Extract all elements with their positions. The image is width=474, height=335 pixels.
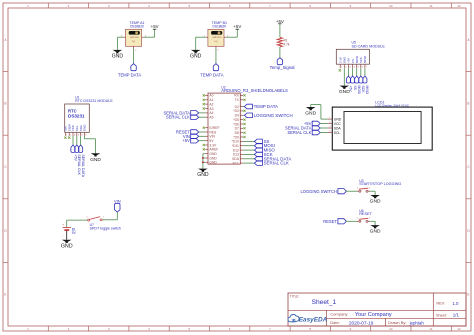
svg-text:SERIAL CLK: SERIAL CLK — [166, 115, 190, 120]
svg-text:11: 11 — [430, 4, 433, 8]
svg-text:*D5: *D5 — [233, 118, 239, 122]
svg-text:DS18B20: DS18B20 — [213, 24, 227, 28]
svg-text:D2: D2 — [235, 105, 239, 109]
svg-text:MOSI: MOSI — [357, 86, 361, 95]
svg-text:A5: A5 — [209, 116, 213, 120]
svg-text:VIN: VIN — [209, 135, 215, 139]
svg-text:4.7k: 4.7k — [284, 42, 290, 46]
svg-text:GND: GND — [83, 125, 87, 131]
svg-text:Your Company: Your Company — [355, 312, 392, 318]
svg-text:10: 10 — [389, 4, 393, 8]
svg-text:+5V: +5V — [233, 24, 241, 29]
svg-text:TEMP DATA: TEMP DATA — [200, 72, 223, 77]
svg-text:SERIAL DATA: SERIAL DATA — [81, 154, 85, 177]
svg-text:B: B — [467, 102, 469, 106]
svg-text:VIN: VIN — [114, 198, 121, 203]
svg-text:RX: RX — [234, 94, 239, 98]
svg-text:MISO: MISO — [365, 86, 369, 95]
svg-text:REV:: REV: — [436, 302, 445, 306]
svg-text:SCL: SCL — [232, 161, 239, 165]
svg-text:D13: D13 — [233, 153, 239, 157]
svg-text:12: 12 — [457, 327, 461, 331]
svg-text:RTC DS3231 MODULE: RTC DS3231 MODULE — [75, 99, 113, 103]
svg-text:12: 12 — [457, 4, 461, 8]
svg-text:SS: SS — [353, 86, 357, 91]
svg-text:AREF: AREF — [209, 148, 218, 152]
svg-text:DQ: DQ — [214, 41, 217, 43]
svg-text:GND: GND — [112, 54, 124, 60]
svg-text:MISO: MISO — [363, 55, 367, 63]
svg-text:+: + — [62, 223, 64, 227]
svg-text:DQ: DQ — [132, 41, 135, 43]
svg-text:*D9: *D9 — [233, 135, 239, 139]
svg-text:11: 11 — [430, 327, 433, 331]
svg-text:*D11: *D11 — [232, 144, 239, 148]
svg-text:VDD: VDD — [217, 37, 222, 39]
svg-text:GND: GND — [305, 111, 316, 117]
svg-text:jephtah: jephtah — [409, 321, 425, 326]
svg-text:+5V: +5V — [276, 19, 284, 24]
svg-text:GND: GND — [339, 89, 350, 95]
svg-text:SPDT toggle switch: SPDT toggle switch — [90, 227, 121, 231]
svg-text:SERIAL CLK: SERIAL CLK — [264, 161, 289, 166]
svg-text:GND: GND — [190, 54, 202, 60]
svg-text:Drawn By:: Drawn By: — [388, 320, 406, 325]
svg-text:GND: GND — [61, 243, 73, 249]
svg-text:START/STOP LOGGING: START/STOP LOGGING — [359, 182, 401, 186]
svg-text:TEMP DATA: TEMP DATA — [118, 72, 141, 77]
svg-text:2020-07-19: 2020-07-19 — [349, 320, 374, 326]
svg-text:DS3231: DS3231 — [68, 114, 85, 119]
svg-text:LCD Display, 20x4 V3 IIC: LCD Display, 20x4 V3 IIC — [375, 104, 410, 108]
svg-text:EasyEDA: EasyEDA — [299, 317, 328, 324]
svg-text:A3: A3 — [209, 107, 213, 111]
svg-text:GND: GND — [370, 199, 381, 205]
svg-text:SCK: SCK — [361, 86, 365, 94]
svg-text:GND: GND — [197, 172, 209, 178]
svg-text:E: E — [4, 292, 6, 296]
svg-text:10: 10 — [389, 327, 393, 331]
svg-text:SDA: SDA — [334, 126, 342, 130]
svg-text:RESET: RESET — [359, 212, 372, 216]
svg-text:TEMP DATA: TEMP DATA — [254, 104, 278, 109]
svg-text:-: - — [62, 233, 63, 237]
svg-text:SERIAL CLK: SERIAL CLK — [287, 130, 311, 135]
svg-text:Sheet_1: Sheet_1 — [312, 299, 337, 306]
svg-text:VDD: VDD — [135, 37, 140, 39]
svg-text:+5V: +5V — [151, 24, 159, 29]
svg-text:GND: GND — [90, 157, 101, 163]
svg-text:GND: GND — [209, 161, 217, 165]
svg-text:Date:: Date: — [330, 320, 340, 325]
svg-text:SCL: SCL — [334, 131, 341, 135]
svg-text:+5V: +5V — [349, 86, 353, 93]
svg-text:VCC: VCC — [334, 122, 342, 126]
svg-text:*D3: *D3 — [233, 109, 239, 113]
svg-text:DS18B20: DS18B20 — [130, 24, 144, 28]
svg-text:RESET: RESET — [323, 219, 337, 224]
svg-text:ARDUINO_R3_SHIELDNOLABELS: ARDUINO_R3_SHIELDNOLABELS — [221, 88, 288, 93]
svg-text:1.0: 1.0 — [452, 301, 459, 306]
svg-text:LOGGING SWITCH: LOGGING SWITCH — [301, 189, 337, 194]
svg-text:+5V: +5V — [182, 138, 190, 143]
svg-text:B: B — [4, 102, 6, 106]
svg-text:A0: A0 — [209, 94, 213, 98]
svg-text:E: E — [467, 292, 469, 296]
svg-text:Sheet:: Sheet: — [436, 314, 447, 318]
svg-text:A2: A2 — [209, 102, 213, 106]
svg-text:LOGGING SWITCH: LOGGING SWITCH — [254, 113, 293, 118]
svg-text:TITLE:: TITLE: — [290, 295, 300, 299]
svg-text:Company:: Company: — [330, 311, 348, 316]
svg-text:SD CARD MODULE: SD CARD MODULE — [352, 44, 386, 48]
svg-text:1/1: 1/1 — [453, 313, 460, 318]
svg-text:D7: D7 — [235, 127, 239, 131]
svg-text:Temp_Signal: Temp_Signal — [270, 65, 295, 70]
svg-text:SERIAL CLK: SERIAL CLK — [77, 154, 81, 175]
svg-text:GND: GND — [370, 229, 381, 235]
svg-text:GND: GND — [334, 117, 342, 121]
svg-text:+5V: +5V — [73, 154, 77, 161]
